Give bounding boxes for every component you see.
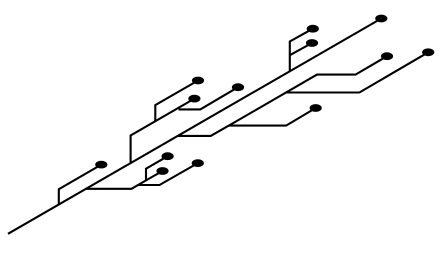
wire branch to pad 13 — [178, 108, 316, 136]
pad 9 — [162, 152, 174, 160]
wire branch to pad 7 — [131, 99, 195, 163]
pad 2 — [306, 39, 318, 47]
wire vertical branch to pad 1 — [290, 29, 313, 71]
wire branch to pad 11 — [138, 163, 198, 185]
pad 4 — [381, 52, 393, 60]
wire branch to pad 6 — [155, 81, 198, 122]
pad 6 — [192, 77, 204, 85]
pad 12 — [95, 161, 107, 169]
pad 11 — [192, 159, 204, 167]
wire main trunk — [8, 19, 381, 234]
pad 1 — [307, 25, 319, 33]
pad 3 — [375, 15, 387, 23]
wire branch to pad 8 — [179, 87, 239, 109]
wire stem to pad 2 — [290, 43, 312, 55]
pad 7 — [188, 95, 200, 103]
wire stem to pad 10 — [146, 171, 163, 180]
wire branch to pad 9 — [86, 156, 168, 189]
wire branch to pad 12 — [59, 165, 102, 205]
pad 13 — [310, 104, 322, 112]
wire branch to pad 5 — [286, 52, 428, 92]
pad 10 — [156, 167, 168, 175]
wire diagonal to pad 4 — [229, 56, 387, 125]
pad 8 — [232, 83, 244, 91]
pad 5 — [422, 48, 434, 56]
